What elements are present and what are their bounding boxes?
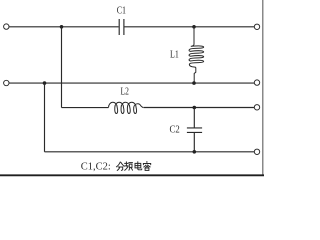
glyph 频 (125, 162, 127, 166)
wire row3 right (L2 to right terminal) (143, 107, 254, 109)
svg-text:C1: C1 (117, 5, 126, 16)
wire row1 left (terminal to C1) (9, 26, 119, 28)
terminal OUT1- (right, row2) (254, 80, 259, 85)
wire C2 bottom lead (193, 133, 195, 152)
svg-text:L1: L1 (170, 50, 179, 61)
glyph 容 (146, 162, 148, 163)
wire row4 (bottom rail to right terminal) (45, 151, 255, 153)
capacitor C2 (187, 128, 202, 132)
terminal OUT2+ (right, row3) (254, 105, 259, 110)
wire row3 left (corner to L2) (62, 107, 109, 109)
node D (junction row2 / L1 bottom) (192, 81, 196, 85)
glyph 分 (116, 162, 120, 167)
svg-text:C2: C2 (170, 124, 180, 135)
wire V1 (from node A down to row3) (61, 27, 63, 108)
svg-text:L2: L2 (121, 87, 129, 98)
inductor L1 (vertical, loop style) (189, 27, 204, 83)
terminal OUT1+ (top-right) (254, 24, 259, 29)
node A (junction on row1) (60, 25, 64, 29)
node C (junction row2, to V2) (43, 81, 47, 85)
node F (junction row4 / C2 bottom) (193, 150, 197, 154)
caption CJK 分频电容 (hand-drawn glyphs) (116, 162, 150, 171)
wire row2 (left terminal to right terminal, crosses V1 without junction) (4, 80, 9, 85)
capacitor C1 (119, 19, 124, 35)
wire V2 (from node C down to row4) (44, 83, 46, 152)
wire C2 top lead (193, 108, 195, 128)
glyph 电 (138, 162, 142, 170)
terminal OUT2- (right, row4) (254, 149, 259, 154)
terminal IN+ (top-left) (4, 24, 9, 29)
node E (junction row3 / C2 top) (193, 106, 197, 110)
wire row1 right (C1 to right terminal) (124, 26, 254, 28)
node B (junction row1 / L1 top) (192, 25, 196, 29)
svg-text:C1,C2:: C1,C2: (81, 162, 111, 173)
inductor L2 (horizontal, loop style) (109, 102, 144, 113)
